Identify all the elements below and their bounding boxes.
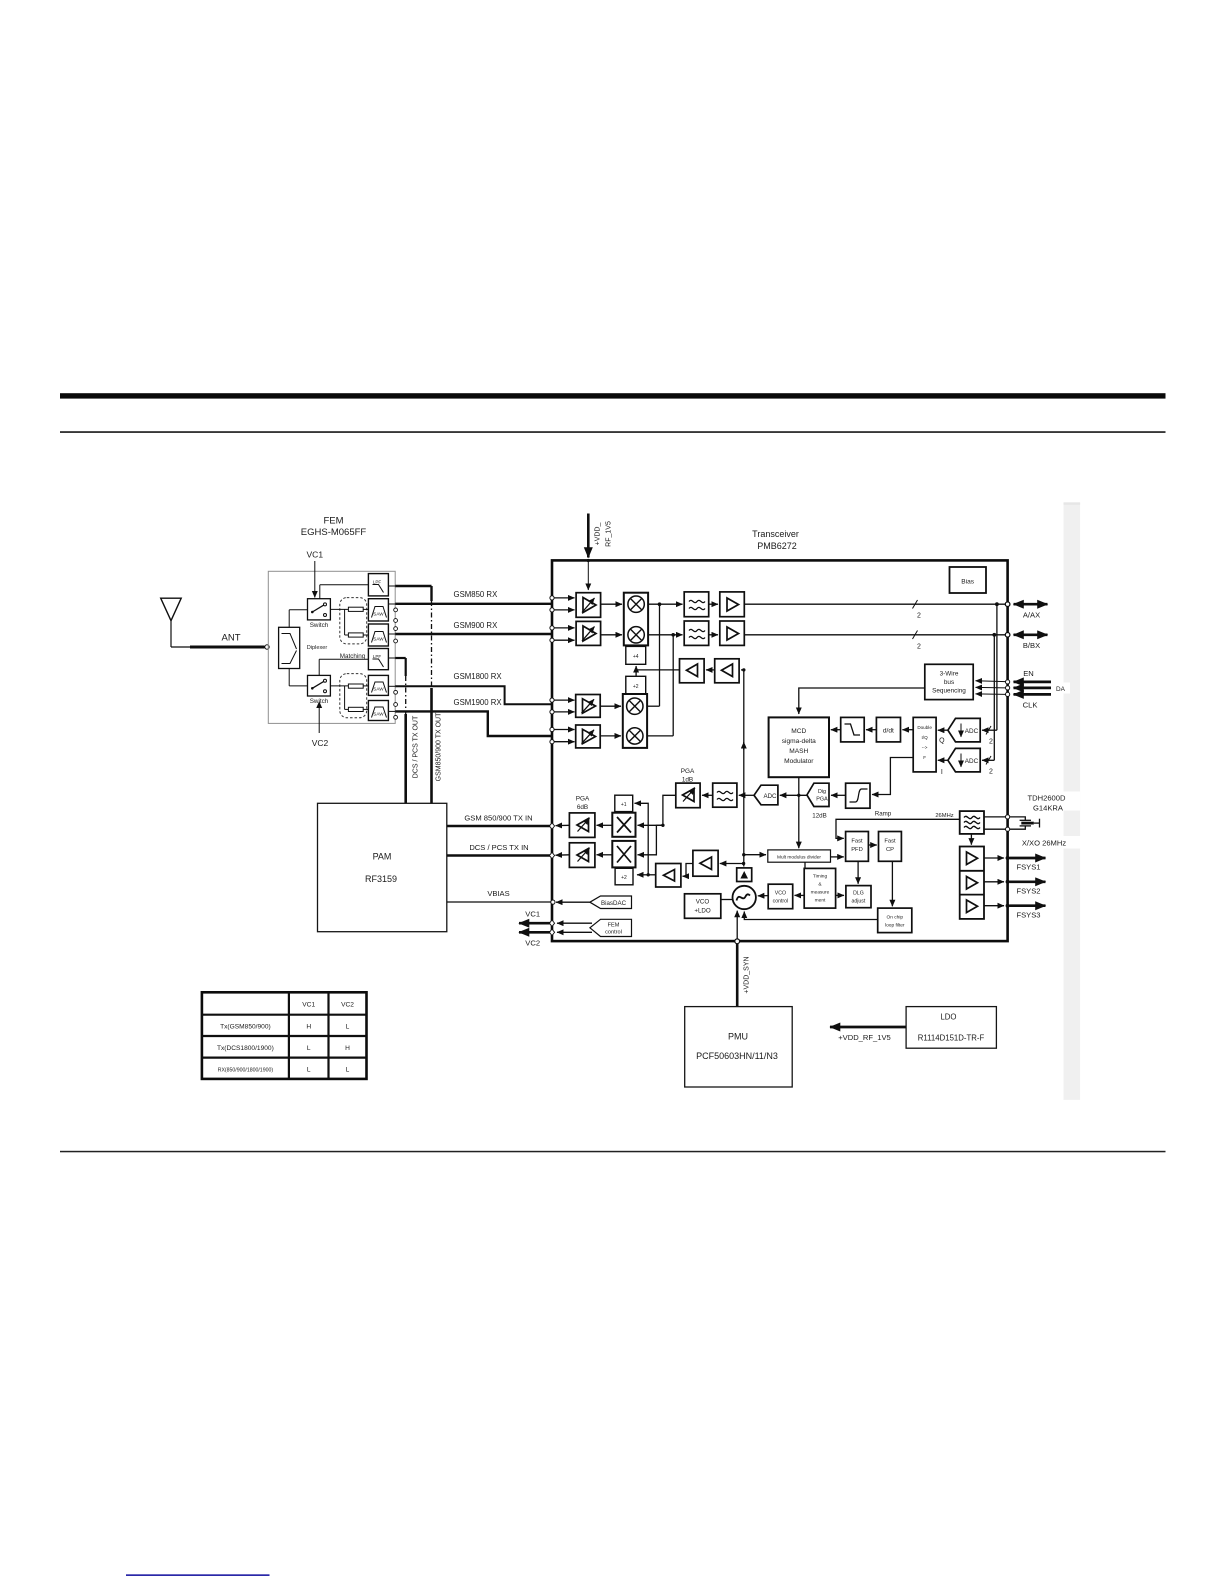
- svg-text:ADC: ADC: [965, 728, 979, 735]
- LO feed to +1 and +2: [635, 803, 656, 876]
- filter LPF1 (GSM850/900 TX): [368, 574, 388, 596]
- wire to multi-modulus divider: [742, 853, 766, 856]
- svg-text:Switch: Switch: [310, 622, 329, 629]
- wire GSM900 RX: [395, 621, 552, 634]
- wire DigPGA to ADC RX: [780, 794, 807, 797]
- wire ADC RX to filter: [739, 794, 754, 796]
- divider +2 (TX): [615, 868, 633, 885]
- svg-text:+VDD_: +VDD_: [595, 523, 602, 546]
- svg-text:VC2: VC2: [341, 1002, 354, 1009]
- svg-text:Ramp: Ramp: [875, 811, 892, 818]
- svg-text:d/dt: d/dt: [883, 728, 894, 735]
- wire Timing to VCO control: [795, 894, 805, 896]
- transceiver PMB6272 box: [552, 529, 1008, 941]
- wire FSYS3: [984, 904, 1046, 920]
- svg-text:Diplexer: Diplexer: [307, 645, 328, 651]
- ANT label: [222, 633, 241, 644]
- wire PFD to CP: [868, 844, 876, 846]
- svg-text:2: 2: [989, 769, 993, 776]
- +VDD_RF_1V5 supply: [587, 514, 613, 591]
- svg-text:VC1: VC1: [525, 910, 540, 919]
- Ramp shaping filter: [846, 783, 892, 817]
- TX LO amp TA1: [656, 864, 681, 888]
- svg-text:Sequencing: Sequencing: [932, 688, 966, 695]
- PMU PCF50603: [685, 1007, 793, 1087]
- svg-text:L: L: [307, 1045, 311, 1052]
- wire F1 to A1: [709, 603, 718, 605]
- svg-text:DA: DA: [1056, 686, 1066, 693]
- svg-text:Transceiver: Transceiver: [752, 529, 799, 539]
- svg-text:X/XO 26MHz: X/XO 26MHz: [1022, 839, 1067, 848]
- ADC I: [948, 748, 980, 772]
- svg-text:+2: +2: [633, 684, 639, 690]
- on-chip loop filter box: [878, 908, 912, 933]
- matching label: [340, 653, 366, 660]
- svg-text:Tx(GSM850/900): Tx(GSM850/900): [220, 1024, 271, 1031]
- wire Double to Ramp: [872, 758, 913, 795]
- svg-text:FEM: FEM: [608, 923, 620, 929]
- svg-text:PMB6272: PMB6272: [757, 541, 797, 551]
- svg-text:Dig: Dig: [818, 789, 826, 795]
- antenna: [161, 598, 269, 649]
- +VDD_SYN supply: [735, 939, 751, 1007]
- svg-text:3-Wire: 3-Wire: [940, 671, 959, 678]
- svg-text:2: 2: [917, 644, 921, 651]
- page rules and furniture: [60, 393, 1166, 1576]
- LO link into dividers: [636, 666, 679, 676]
- svg-text:26MHz: 26MHz: [935, 813, 953, 819]
- wire VCO LDO to VCO: [721, 899, 733, 901]
- wire filter to FSYS buffers: [970, 834, 972, 845]
- svg-text:GSM1900 RX: GSM1900 RX: [454, 698, 503, 707]
- svg-text:Q: Q: [939, 738, 945, 745]
- divider +4: [626, 646, 646, 664]
- mixer block MX1 (850/900): [624, 593, 648, 646]
- wire VBIAS: [447, 889, 552, 902]
- wire LNA4 to MX2: [600, 735, 621, 737]
- wire 3-wire bus to MCD: [799, 688, 925, 714]
- node Q: [939, 738, 945, 745]
- svg-text:RX(850/900/1800/1900): RX(850/900/1800/1900): [218, 1068, 274, 1074]
- EN input: [976, 669, 1052, 684]
- svg-text:EGHS-M065FF: EGHS-M065FF: [301, 527, 367, 538]
- RX input terminals: [550, 596, 575, 744]
- wire BL2 to BL1: [706, 669, 715, 671]
- 3-Wire bus Sequencing box: [925, 664, 973, 699]
- divider +1: [615, 795, 633, 811]
- svg-text:CP: CP: [886, 847, 894, 853]
- wire LNA1 to MX1: [601, 603, 622, 605]
- svg-text:Matching: Matching: [340, 653, 366, 660]
- CLK input: [976, 692, 1052, 709]
- VC1 VC2 truth table: [202, 992, 367, 1079]
- wire VCO line to BL2: [741, 668, 746, 671]
- svg-text:ADC: ADC: [763, 793, 777, 800]
- svg-text:L: L: [307, 1067, 311, 1074]
- svg-text:GSM1800 RX: GSM1800 RX: [454, 672, 503, 681]
- filter SAW4 (GSM1900 RX): [368, 701, 388, 721]
- svg-text:+1: +1: [621, 802, 627, 808]
- svg-text:VCO: VCO: [696, 899, 710, 906]
- svg-text:LPF: LPF: [373, 579, 382, 584]
- lowpass block: [841, 717, 865, 742]
- svg-text:ADC: ADC: [965, 758, 979, 765]
- FSYS buffer stack: [960, 847, 984, 919]
- wires filter to crystal terminals: [984, 815, 1010, 832]
- Double I/Q F converter: [913, 717, 936, 772]
- wire MCD to divider: [798, 777, 800, 848]
- wire TA2 to TA1: [683, 864, 693, 877]
- wire X1 to PGA6dB-1: [597, 824, 613, 826]
- svg-text:Modulator: Modulator: [784, 758, 814, 765]
- wire GSM 850/900 TX IN: [447, 814, 552, 827]
- gray scroll band right: [1064, 502, 1081, 1100]
- svg-text:PMU: PMU: [728, 1032, 748, 1042]
- PGA1dB output path to TX mixers: [638, 795, 676, 855]
- svg-text:+LDO: +LDO: [694, 908, 711, 915]
- svg-text:6dB: 6dB: [577, 804, 588, 811]
- svg-text:PGA: PGA: [576, 796, 590, 803]
- switch S1: [308, 599, 331, 629]
- 26MHz crystal filter: [960, 811, 984, 834]
- RX channel filter F1: [684, 592, 709, 617]
- svg-text:+2: +2: [621, 875, 627, 881]
- Timing measurement box: [804, 868, 835, 908]
- svg-text:control: control: [773, 899, 789, 905]
- ADC Q: [948, 718, 980, 742]
- wire filter to PGA1dB: [702, 794, 713, 796]
- BiasDAC flag: [551, 896, 632, 909]
- svg-text:MASH: MASH: [789, 748, 808, 755]
- wire loop filter to VCO: [744, 912, 877, 920]
- Fast PFD box: [846, 832, 869, 862]
- svg-text:F: F: [923, 755, 926, 760]
- svg-text:EN: EN: [1023, 669, 1034, 678]
- svg-text:PCF50603HN/11/N3: PCF50603HN/11/N3: [696, 1051, 778, 1061]
- filter LPF2 (DCS/PCS TX): [368, 649, 388, 670]
- switch S2: [308, 675, 331, 705]
- svg-text:VC2: VC2: [525, 939, 540, 948]
- wire Ramp to DigPGA: [831, 794, 846, 796]
- svg-text:VCO: VCO: [775, 891, 786, 897]
- svg-text:On chip: On chip: [887, 915, 904, 921]
- LDO regulator box: [906, 1007, 996, 1049]
- svg-text:SAW: SAW: [373, 687, 384, 692]
- svg-text:SAW: SAW: [373, 636, 384, 641]
- svg-text:PAM: PAM: [373, 852, 392, 862]
- filter SAW2 (GSM900 RX): [368, 624, 388, 646]
- svg-text:PGA: PGA: [681, 768, 695, 775]
- svg-text:VC2: VC2: [312, 738, 329, 748]
- svg-text:-->: -->: [922, 745, 928, 750]
- wire Timing to DLG: [836, 894, 844, 896]
- crystal part number: [1014, 792, 1080, 813]
- svg-text:+VDD_RF_1V5: +VDD_RF_1V5: [838, 1033, 891, 1042]
- wire divider to Timing: [804, 862, 806, 868]
- VCO LDO box: [685, 894, 721, 919]
- svg-text:TDH2600D: TDH2600D: [1028, 794, 1066, 803]
- svg-text:RF3159: RF3159: [365, 874, 397, 884]
- svg-text:control: control: [605, 930, 622, 936]
- d/dt block: [876, 717, 900, 742]
- svg-text:ANT: ANT: [222, 633, 241, 644]
- buffer amp A1: [720, 592, 745, 617]
- svg-text:FEM: FEM: [323, 516, 343, 527]
- svg-text:Bias: Bias: [961, 579, 975, 586]
- svg-text:R1114D151D-TR-F: R1114D151D-TR-F: [918, 1034, 985, 1043]
- svg-text:VBIAS: VBIAS: [487, 889, 509, 898]
- wire A bus to ADC Q: [982, 604, 997, 745]
- svg-text:bus: bus: [944, 679, 954, 686]
- svg-text:adjust: adjust: [851, 899, 865, 905]
- wire VCO control to VCO: [758, 895, 768, 897]
- svg-text:GSM 850/900 TX IN: GSM 850/900 TX IN: [464, 814, 532, 823]
- wire A/AX bus: [744, 600, 1047, 620]
- LO buffer amp BL2: [715, 659, 739, 683]
- svg-text:I: I: [941, 769, 943, 776]
- svg-text:measure: measure: [811, 890, 830, 896]
- wire Double to d/dt: [902, 729, 913, 731]
- svg-text:Tx(DCS1800/1900): Tx(DCS1800/1900): [217, 1045, 274, 1052]
- mixer block MX2 (1800/1900): [623, 694, 647, 748]
- ADC RX: [754, 785, 778, 805]
- svg-text:sigma-delta: sigma-delta: [782, 738, 816, 745]
- wire ADC I to Double: [938, 759, 948, 761]
- svg-text:L: L: [346, 1024, 350, 1031]
- FEM edge terminals: [388, 586, 397, 719]
- wire LNA2 to MX1: [601, 634, 622, 636]
- matching network (dashed) lower: [340, 674, 367, 718]
- 26MHz reference path: [836, 813, 960, 838]
- DA input: [976, 683, 1071, 694]
- wire TX out DCS/PCS: [549, 852, 569, 858]
- diplexer: [279, 627, 328, 668]
- svg-text:SAW: SAW: [373, 712, 384, 717]
- FEM title: [301, 516, 367, 539]
- svg-text:H: H: [306, 1024, 311, 1031]
- TX mixer X2: [612, 841, 635, 868]
- wire GSM1900 RX: [395, 698, 552, 736]
- VCO feedback vertical: [743, 670, 745, 867]
- svg-text:GSM900 RX: GSM900 RX: [454, 621, 499, 630]
- svg-text:RF_1V5: RF_1V5: [606, 521, 613, 547]
- filter SAW1 (GSM850 RX): [368, 599, 388, 621]
- svg-text:DLG: DLG: [853, 891, 864, 897]
- svg-text:FSYS2: FSYS2: [1016, 887, 1040, 896]
- svg-text:PFD: PFD: [851, 847, 863, 853]
- svg-text:I/Q: I/Q: [922, 735, 929, 740]
- FEM module box: [268, 571, 395, 723]
- LNA U1 (GSM850): [576, 593, 601, 618]
- wire VDD_SYN to VCO: [736, 911, 738, 940]
- LO buffer amp BL1: [680, 659, 705, 683]
- svg-text:FSYS1: FSYS1: [1016, 863, 1040, 872]
- TX LO amp TA2: [693, 850, 718, 876]
- wire FSYS1: [984, 856, 1046, 872]
- Bias box: [950, 567, 987, 593]
- VC2 control line: [312, 702, 329, 749]
- VC1 control line: [307, 550, 324, 598]
- wire divider to Fast PFD: [831, 856, 844, 858]
- svg-text:Timing: Timing: [813, 874, 828, 880]
- svg-text:+VDD_SYN: +VDD_SYN: [744, 956, 751, 993]
- svg-text:H: H: [345, 1045, 350, 1052]
- wire PFD to DLG: [857, 861, 859, 884]
- wire VCO line to TA2: [720, 862, 746, 865]
- crystal X1: [1010, 817, 1040, 829]
- svg-text:Double: Double: [917, 725, 932, 730]
- svg-text:PGA: PGA: [816, 797, 828, 803]
- wire B/BX bus: [744, 631, 1047, 651]
- wire GSM1800 RX: [395, 672, 552, 704]
- DLG adjust box: [846, 886, 871, 908]
- svg-text:LPF: LPF: [373, 654, 382, 659]
- svg-text:BiasDAC: BiasDAC: [601, 900, 627, 907]
- PGA 1dB amp: [676, 768, 700, 808]
- VCO control box: [768, 884, 793, 909]
- wire GSM850/900 TX OUT column: [395, 586, 442, 803]
- svg-text:12dB: 12dB: [812, 813, 826, 820]
- wire lowpass to MCD: [831, 729, 841, 731]
- svg-text:2: 2: [989, 739, 993, 746]
- svg-text:LDO: LDO: [940, 1013, 956, 1022]
- wire CP to on-chip filter: [891, 861, 893, 906]
- svg-text:GSM850 RX: GSM850 RX: [454, 590, 499, 599]
- svg-text:Fast: Fast: [884, 839, 896, 845]
- svg-text:+4: +4: [633, 654, 639, 660]
- svg-text:A/AX: A/AX: [1023, 611, 1040, 620]
- wire +VDD_RF_1V5 from LDO: [830, 1027, 906, 1042]
- wire VC2 out: [519, 932, 552, 947]
- filter SAW3 (GSM1800 RX): [368, 675, 388, 695]
- svg-text:CLK: CLK: [1023, 701, 1038, 710]
- IF bus wires from mixers: [647, 602, 682, 736]
- svg-text:loop filter: loop filter: [885, 923, 905, 929]
- svg-text:VC1: VC1: [302, 1002, 315, 1009]
- buffer amp A2: [720, 621, 745, 645]
- Fast CP box: [879, 832, 902, 862]
- TX mixer X1: [612, 813, 635, 837]
- svg-text:DCS / PCS TX IN: DCS / PCS TX IN: [469, 843, 528, 852]
- svg-text:Fast: Fast: [851, 839, 863, 845]
- svg-text:FSYS3: FSYS3: [1016, 911, 1040, 920]
- Dig PGA: [807, 783, 829, 819]
- wire X2 to PGA6dB-2: [597, 854, 613, 856]
- MCD sigma-delta MASH Modulator: [769, 717, 829, 777]
- PAM RF3159: [318, 803, 447, 931]
- svg-text:ment: ment: [815, 898, 826, 904]
- wire GSM850 RX: [395, 590, 552, 604]
- divider +2: [626, 676, 646, 694]
- wire DCS/PCS TX OUT column: [395, 658, 419, 803]
- svg-text:B/BX: B/BX: [1023, 641, 1040, 650]
- svg-text:MCD: MCD: [791, 728, 806, 735]
- wire TX out 850/900: [549, 823, 569, 829]
- wire B bus to ADC I: [982, 635, 994, 776]
- PGA 6dB amp 2: [569, 843, 595, 868]
- wire d/dt to lowpass: [866, 729, 876, 731]
- FEM internal wires: [289, 585, 368, 710]
- wire LNA3 to MX2: [600, 705, 621, 707]
- wire VC1 out: [519, 910, 552, 924]
- svg-text:2: 2: [917, 613, 921, 620]
- X/XO 26MHz label: [1014, 836, 1082, 849]
- delta attenuator block: [737, 868, 752, 882]
- svg-text:DCS / PCS TX OUT: DCS / PCS TX OUT: [413, 715, 420, 778]
- svg-text:GSM850/900 TX OUT: GSM850/900 TX OUT: [436, 712, 443, 781]
- PGA 6dB amp 1: [569, 796, 595, 838]
- svg-text:L: L: [346, 1067, 350, 1074]
- LNA U2 (GSM900): [576, 621, 601, 645]
- wire FSYS2: [984, 880, 1046, 896]
- svg-text:G14KRA: G14KRA: [1033, 804, 1064, 813]
- multi-modulus divider: [768, 850, 831, 862]
- RX baseband filter: [713, 783, 737, 807]
- LNA U3 (GSM1800): [576, 695, 601, 718]
- FEM control flag: [549, 919, 631, 936]
- svg-text:VC1: VC1: [307, 550, 324, 560]
- matching network (dashed) upper: [340, 598, 367, 644]
- wire F2 to A2: [709, 634, 718, 636]
- node I: [941, 769, 943, 776]
- svg-text:Mult modulus divider: Mult modulus divider: [777, 854, 821, 860]
- svg-text:SAW: SAW: [373, 611, 384, 616]
- RX channel filter F2: [684, 621, 709, 645]
- LNA U4 (GSM1900): [576, 725, 601, 748]
- VCO oscillator: [733, 886, 756, 909]
- wire ADC Q to Double: [938, 729, 948, 731]
- wire DCS / PCS TX IN: [447, 843, 552, 856]
